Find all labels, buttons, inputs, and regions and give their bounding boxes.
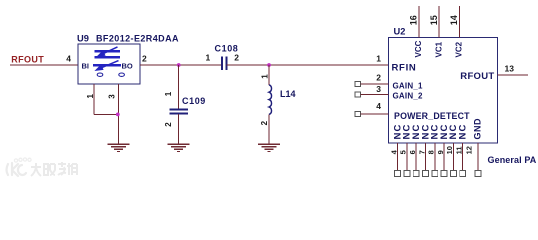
U2 top pin 14 wire bbox=[459, 6, 461, 38]
svg-text:14: 14 bbox=[449, 15, 459, 25]
svg-text:1: 1 bbox=[86, 94, 95, 99]
svg-text:BO: BO bbox=[122, 61, 133, 70]
svg-text:BF2012-E2R4DAA: BF2012-E2R4DAA bbox=[96, 34, 179, 44]
U9 symbol bar 3 bbox=[93, 64, 121, 67]
U2 top pin 16 wire bbox=[418, 6, 420, 38]
svg-text:6: 6 bbox=[408, 150, 417, 154]
watermark character 1 bbox=[31, 163, 41, 176]
wire RFOUT to U9 pin 4 bbox=[10, 64, 78, 66]
NC pin 6 (bottom) bbox=[408, 124, 422, 177]
svg-text:7: 7 bbox=[417, 150, 426, 154]
wire RFOUT pin 13 bbox=[498, 74, 529, 76]
wire C108 to U2 pin 1 bbox=[227, 64, 389, 66]
junction dot U9 bottom bbox=[116, 113, 120, 117]
svg-text:GAIN_1: GAIN_1 bbox=[393, 81, 423, 90]
watermark logo dots bbox=[14, 158, 31, 162]
svg-text:10: 10 bbox=[445, 146, 454, 154]
svg-text:RFOUT: RFOUT bbox=[460, 71, 494, 82]
svg-text:8: 8 bbox=[427, 150, 436, 154]
wire GAIN_2 bbox=[360, 94, 388, 96]
svg-text:GAIN_2: GAIN_2 bbox=[393, 91, 423, 100]
L14 wire to ground bbox=[268, 114, 270, 143]
U2 top pin 15 wire bbox=[438, 6, 440, 38]
svg-text:General PA: General PA bbox=[488, 155, 537, 165]
junction node L14 branch bbox=[267, 63, 271, 67]
svg-text:11: 11 bbox=[455, 146, 464, 154]
wire joining U9 pins 1 and 3 bbox=[94, 113, 118, 115]
watermark character 4 bbox=[67, 163, 77, 175]
capacitor C109 bbox=[170, 109, 189, 113]
U9 ellipse marker left bbox=[97, 73, 103, 76]
wire down to C109 bbox=[178, 65, 180, 109]
svg-text:3: 3 bbox=[376, 84, 381, 94]
svg-text:VCC: VCC bbox=[414, 40, 423, 57]
svg-text:L14: L14 bbox=[280, 89, 296, 99]
watermark character 3 bbox=[58, 162, 66, 175]
svg-text:1: 1 bbox=[376, 53, 381, 63]
filter U9 box bbox=[78, 44, 140, 84]
U9 symbol bar 1 bbox=[95, 50, 121, 53]
svg-text:3: 3 bbox=[108, 94, 117, 99]
ground below U9 bbox=[108, 144, 130, 151]
U9 symbol diagonal arrow 1 bbox=[96, 47, 117, 57]
U2 bottom NC pins bbox=[389, 124, 468, 177]
svg-text:1: 1 bbox=[261, 74, 270, 79]
svg-text:15: 15 bbox=[429, 15, 439, 25]
ground below C109 bbox=[168, 144, 190, 151]
wire GAIN_1 bbox=[360, 83, 388, 85]
NC pin 5 (bottom) bbox=[399, 124, 413, 177]
NC pin 7 (bottom) bbox=[417, 124, 431, 177]
wire down to L14 bbox=[268, 65, 270, 85]
svg-text:5: 5 bbox=[399, 150, 408, 154]
svg-text:1: 1 bbox=[206, 52, 211, 62]
svg-text:4: 4 bbox=[376, 101, 381, 111]
svg-text:2: 2 bbox=[260, 120, 269, 125]
U9 pin 1 wire (bottom left) bbox=[93, 84, 95, 114]
svg-text:VC1: VC1 bbox=[434, 41, 443, 57]
watermark logo bbox=[7, 163, 27, 176]
POWER_DETECT stub square bbox=[355, 112, 361, 117]
C109 wire to ground bbox=[178, 114, 180, 144]
svg-text:VC2: VC2 bbox=[455, 41, 464, 57]
junction node C109 branch bbox=[177, 63, 181, 67]
svg-text:12: 12 bbox=[465, 146, 474, 154]
svg-text:2: 2 bbox=[164, 122, 173, 127]
GAIN_2 stub square bbox=[355, 92, 361, 97]
svg-text:13: 13 bbox=[505, 64, 515, 74]
svg-text:U2: U2 bbox=[394, 27, 406, 37]
watermark character 2 bbox=[44, 164, 55, 175]
svg-text:2: 2 bbox=[142, 54, 147, 64]
svg-text:C109: C109 bbox=[182, 96, 206, 106]
svg-text:1: 1 bbox=[164, 91, 173, 96]
wire POWER_DETECT bbox=[360, 113, 388, 115]
NC pin 8 (bottom) bbox=[427, 124, 441, 177]
svg-text:2: 2 bbox=[234, 52, 239, 62]
NC pin 4 (bottom) bbox=[389, 124, 403, 177]
GND stub square bbox=[475, 171, 481, 177]
U9 ellipse marker right bbox=[119, 73, 125, 76]
NC pin 9 (bottom) bbox=[436, 124, 450, 177]
U9 symbol diagonal arrow 2 bbox=[94, 61, 118, 71]
capacitor C108 (series) bbox=[222, 57, 227, 71]
U2 GND pin 12 wire bbox=[477, 143, 479, 170]
amplifier U2 box bbox=[389, 38, 498, 144]
svg-text:U9: U9 bbox=[77, 34, 89, 44]
svg-text:2: 2 bbox=[376, 73, 381, 83]
NC pin 11 (bottom) bbox=[455, 124, 469, 177]
wire U9 pin 2 to C108 bbox=[140, 64, 222, 66]
U9 symbol bar 2 bbox=[95, 56, 121, 59]
ground below L14 bbox=[258, 144, 280, 151]
svg-text:4: 4 bbox=[66, 54, 71, 64]
svg-text:9: 9 bbox=[436, 150, 445, 154]
svg-text:NC: NC bbox=[458, 124, 469, 140]
svg-text:BI: BI bbox=[82, 61, 90, 70]
svg-text:GND: GND bbox=[473, 118, 483, 140]
U9 pin 3 wire (bottom right) bbox=[118, 84, 120, 144]
svg-text:RFOUT: RFOUT bbox=[11, 54, 44, 64]
GAIN_1 stub square bbox=[355, 82, 361, 87]
svg-text:RFIN: RFIN bbox=[392, 63, 417, 74]
NC pin 10 (bottom) bbox=[445, 124, 459, 177]
inductor L14 coil bbox=[269, 85, 272, 115]
svg-text:16: 16 bbox=[409, 15, 419, 25]
svg-text:POWER_DETECT: POWER_DETECT bbox=[394, 111, 470, 121]
